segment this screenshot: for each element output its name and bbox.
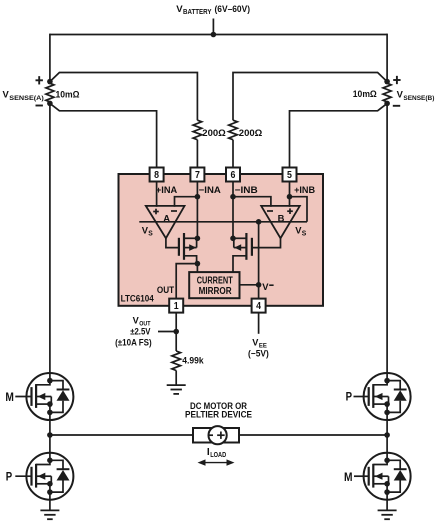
pin 6 box [226,168,240,182]
transistor M1 source stub [184,256,197,264]
junction mirror V- [256,282,262,288]
pin 8 box [150,168,164,182]
svg-text:OUT: OUT [157,285,175,295]
resistor RINA 200Ohm [193,120,202,140]
svg-text:+INB: +INB [294,185,315,196]
wire +INB branch to VS rail [290,197,308,222]
transistor M1 drain stub [184,237,197,239]
wire RsenseA - tap [50,103,157,167]
svg-text:4.99k: 4.99k [182,356,204,366]
label - RsenseB [393,105,400,107]
wire left motor rail [50,434,193,436]
transistor M2 source stub [233,256,246,272]
junction VS rail to V- [256,219,262,225]
svg-text:7: 7 [195,170,200,181]
svg-text:+INA: +INA [156,185,177,196]
resistor RINB 200Ohm [229,120,238,140]
svg-text:10mΩ: 10mΩ [353,89,377,99]
svg-text:CURRENT: CURRENT [197,275,233,286]
pin 4 box [252,299,266,313]
svg-text:LTC6104: LTC6104 [121,293,155,303]
label + RsenseB [393,79,400,81]
wire left rail drop to RsenseA [49,34,51,82]
svg-text:M: M [5,390,14,404]
wire VOUT to Rout [175,332,177,352]
svg-text:200Ω: 200Ω [202,128,226,138]
wire Q4 gate lead [354,475,369,477]
svg-text:−INB: −INB [235,185,258,196]
junction RsenseB - terminal [384,101,390,107]
svg-text:−INA: −INA [199,185,221,196]
svg-text:(−5V): (−5V) [248,348,269,358]
junction M2 drain [230,236,236,242]
svg-text:5: 5 [287,170,292,181]
junction VOUT node [173,329,179,335]
svg-text:±2.5V: ±2.5V [130,327,150,337]
op-amp B [261,206,300,238]
transistor M2 body stub [234,247,247,249]
svg-text:8: 8 [154,170,159,181]
svg-text:MIRROR: MIRROR [199,286,233,297]
wire pin5 to ampB +in [289,182,291,207]
transistor M1 body stub [184,247,197,249]
wire top supply rail [50,34,387,36]
current mirror block [189,272,239,298]
ground Rout [167,384,186,386]
wire pin8 to ampA +in [156,182,158,207]
svg-text:PELTIER DEVICE: PELTIER DEVICE [185,409,252,419]
label + RsenseA [36,79,43,81]
junction right motor node [384,432,390,438]
wire Q4 to ground [386,500,388,511]
wire right column RsenseB to Q3 [386,103,388,373]
wire Q2 to ground [49,500,51,511]
wire -INB branch to ampB -in [233,197,271,207]
transistor Q2 (bottom-left FET) [26,453,73,500]
wire RsenseA + tap [50,73,198,121]
transistor M1 gate drive [166,238,179,247]
transistor Q3 (top-right FET) [364,373,411,420]
resistor ROUT 4.99k [172,351,181,371]
svg-text:P: P [6,470,12,484]
wire pin7 down [196,182,198,239]
junction RsenseB + terminal [384,79,390,85]
wire source to current mirror [196,264,198,273]
pin 7 box [190,168,204,182]
wire Q1 gate lead [15,396,31,398]
wire pin4 to VEE [258,313,260,334]
label B - input [267,210,273,212]
svg-text:SENSE(B): SENSE(B) [403,95,434,102]
wire RsenseB + tap [233,73,387,121]
resistor RSENSE(B) 10mOhm [383,83,391,102]
junction M1 drain [195,236,201,242]
svg-text:V: V [262,281,269,292]
svg-text:(6V–60V): (6V–60V) [215,4,251,15]
wire VOUT label stub [158,331,176,333]
arrow ILOAD direction [202,462,230,464]
wire RINB to pin6 [232,140,234,168]
transistor M2 gate plate [251,238,253,256]
wire -INA branch to ampA -in [175,197,198,207]
svg-text:M: M [344,470,353,484]
label - RsenseA [36,105,43,107]
svg-text:6: 6 [231,170,236,181]
resistor RSENSE(A) 10mOhm [46,83,54,102]
junction -INA node [195,194,201,200]
svg-text:1: 1 [174,301,179,312]
wire Q3 gate lead [354,396,369,398]
svg-text:10mΩ: 10mΩ [56,89,80,99]
wire pin6 down [232,182,234,239]
transistor M2 drain stub [233,237,246,239]
svg-text:S: S [302,231,307,238]
junction +INB node [287,194,293,200]
label A + input [153,211,159,213]
op-amp IC U1 LTC6104 body [119,174,324,306]
wire left column RsenseA to Q1 [49,103,51,373]
junction left motor node [47,432,53,438]
svg-text:4: 4 [256,301,261,312]
wire RsenseB - tap [290,103,388,167]
svg-text:BATTERY: BATTERY [183,9,212,16]
label A - input [171,210,177,212]
wire Q3 to Q4 [386,420,388,453]
wire pin1 down [175,313,177,332]
wire mirror to V- line [240,284,259,286]
op-amp A [146,206,185,238]
wire Q2 gate lead [15,475,31,477]
svg-text:200Ω: 200Ω [239,128,262,138]
transistor M1 channel [183,233,185,260]
wire V- vertical [258,222,260,299]
pin 5 box [283,168,297,182]
wire OUT node to pin1 [176,264,197,299]
ground Q4 [378,509,397,511]
svg-text:(±10A FS): (±10A FS) [115,337,152,347]
svg-text:P: P [346,390,352,404]
wire Q1 to Q2 [49,420,51,453]
label B + input [287,210,293,212]
junction OUT node [195,261,201,267]
junction -INB node [230,194,236,200]
wire right motor rail [239,434,387,436]
svg-text:S: S [148,231,153,238]
wire VBATTERY stub [212,19,214,35]
junction VBATTERY-rail [211,32,217,38]
pin 1 box [169,299,183,313]
transistor M2 channel [245,233,247,260]
transistor Q4 (bottom-right FET) [364,453,411,500]
wire RINA to pin7 [196,140,198,168]
svg-text:LOAD: LOAD [210,450,226,459]
junction RsenseA + terminal [47,79,53,85]
wire right rail drop to RsenseB [386,34,388,82]
wire VS rail [139,221,307,223]
svg-text:SENSE(A): SENSE(A) [9,95,44,102]
transistor M1 gate plate [178,238,180,256]
wire Rout to ground [175,371,177,386]
ground Q2 [40,509,59,511]
transistor Q1 (top-left FET) [26,373,73,420]
junction RsenseA - terminal [47,101,53,107]
transistor M2 gate drive [252,238,281,247]
motor body [193,428,239,443]
